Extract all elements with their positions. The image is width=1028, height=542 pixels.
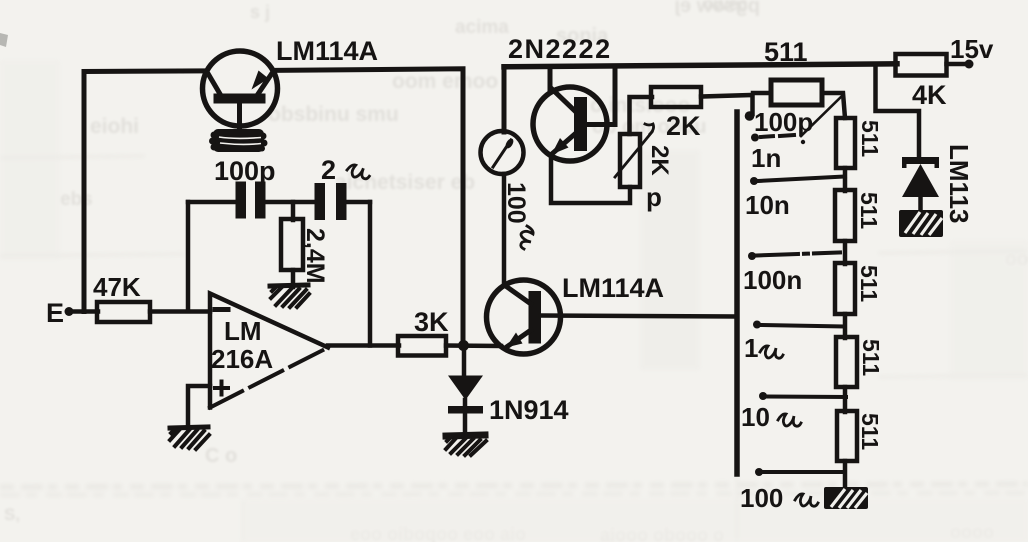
svg-text:2K: 2K	[646, 145, 673, 176]
wire R5 to ground	[843, 461, 848, 490]
switch contact 100u	[740, 468, 843, 513]
svg-text:2K: 2K	[666, 111, 701, 141]
resistor R3 511	[835, 263, 855, 314]
node 15v terminal	[965, 60, 974, 69]
svg-text:eiohi: eiohi	[90, 115, 139, 138]
resistor 47K	[97, 302, 150, 322]
switch contact 10u	[741, 392, 846, 432]
svg-text:1n: 1n	[751, 143, 781, 173]
transistor Q2 LM114A middle	[487, 273, 665, 354]
transistor Q1 LM114A top-left	[203, 36, 379, 133]
value mu script of C2	[346, 164, 370, 179]
op-amp U1 LM216A	[210, 294, 328, 408]
svg-text:10: 10	[741, 402, 770, 432]
svg-text:100: 100	[740, 483, 783, 513]
ground of op-amp non-inverting input	[170, 427, 209, 449]
wire between capacitors	[263, 200, 317, 205]
resistor R2 511	[835, 190, 855, 241]
wire rail junction down to LM113	[876, 64, 920, 158]
svg-text:2,4M: 2,4M	[301, 228, 329, 284]
wire 3K to node and Q2 emitter	[446, 343, 501, 348]
svg-text:acima: acima	[455, 17, 509, 38]
svg-text:100: 100	[502, 182, 530, 224]
resistor 3K	[398, 336, 446, 356]
switch contact 10n	[745, 177, 845, 221]
resistor 4K	[896, 54, 947, 76]
wire capacitor-branch left vertical	[186, 202, 191, 311]
svg-text:47K: 47K	[93, 272, 141, 302]
svg-text:1N914: 1N914	[489, 395, 569, 425]
wire top rail right section	[504, 64, 897, 67]
wire feedback right vertical to output node	[368, 202, 373, 346]
resistor R1 511	[836, 118, 855, 168]
wire capacitor row right	[343, 200, 370, 205]
svg-text:ebs: ebs	[60, 189, 93, 210]
svg-text:owec: owec	[703, 0, 748, 14]
svg-text:aicnetsiser eb: aicnetsiser eb	[335, 171, 475, 194]
ground of 1N914	[446, 435, 486, 455]
wire top rail to meter	[502, 67, 507, 133]
svg-text:1: 1	[744, 333, 758, 363]
node bus top	[745, 111, 755, 121]
resistor 2K	[651, 87, 701, 107]
svg-text:C o: C o	[205, 445, 237, 467]
node junction output	[458, 340, 469, 351]
svg-text:511: 511	[856, 192, 882, 229]
svg-text:LM114A: LM114A	[276, 36, 378, 66]
switch wiper arm	[801, 95, 843, 144]
wire top rail to Q3 collector	[548, 67, 553, 89]
ground of ladder	[824, 487, 868, 509]
svg-text:511: 511	[857, 120, 883, 157]
meter 100u	[481, 131, 534, 249]
ground of LM113	[899, 210, 943, 237]
edge mark left	[0, 33, 8, 47]
wire E to 47K	[69, 309, 98, 314]
wire Q3 base up to top rail	[587, 66, 615, 125]
svg-text:obsbinu smu: obsbinu smu	[268, 103, 399, 126]
svg-text:511: 511	[764, 37, 808, 67]
svg-text:S,: S,	[4, 505, 20, 524]
wire R1-R2	[843, 168, 848, 191]
svg-text:100p: 100p	[214, 156, 276, 186]
range feed resistor (top horizontal)	[753, 80, 845, 118]
svg-text:oom emoo: oom emoo	[392, 70, 498, 93]
svg-text:2: 2	[321, 155, 336, 185]
resistor R4 511	[836, 337, 857, 387]
svg-text:10n: 10n	[745, 190, 790, 220]
wire 2K right to bus top node	[701, 95, 753, 114]
transistor Q3 2N2222	[508, 34, 612, 161]
wire R2-R3	[843, 241, 848, 264]
wire 2K left lead down to trimmer top	[630, 97, 653, 134]
svg-text:100n: 100n	[743, 265, 802, 295]
svg-text:100p: 100p	[754, 107, 813, 137]
switch contact 100n	[743, 252, 840, 295]
wire top rail right of Q1 down to output node	[276, 69, 464, 343]
capacitor C2 2u	[315, 183, 326, 220]
diode D1 1N914	[448, 376, 569, 435]
svg-text:511: 511	[856, 265, 882, 302]
svg-text:15v: 15v	[950, 34, 994, 64]
svg-text:LM: LM	[224, 316, 262, 346]
wire Q2 base to range bus	[541, 316, 737, 317]
capacitor C1 100p	[236, 182, 247, 219]
node E input terminal	[65, 307, 74, 316]
wire feedback loop top-left: from input node up, across top, down to output node	[84, 71, 205, 312]
ground of 2.4M	[270, 285, 309, 307]
svg-text:p: p	[646, 182, 662, 212]
wire node to diode	[462, 345, 467, 377]
trimmer 2Kp	[615, 124, 673, 212]
diode LM113	[902, 144, 974, 224]
svg-text:E: E	[46, 298, 64, 328]
switch contact 1u	[744, 321, 843, 364]
ground scribble below Q1 base	[209, 129, 268, 152]
range bus vertical	[734, 112, 740, 474]
resistor 2.4M	[281, 219, 303, 270]
svg-text:3K: 3K	[414, 307, 449, 337]
wire Q3 emitter to trimmer bottom	[551, 155, 630, 203]
svg-text:511: 511	[858, 339, 884, 376]
svg-text:LM114A: LM114A	[562, 273, 664, 303]
switch contact 1n	[751, 134, 794, 174]
wire op-amp output to 3K	[328, 343, 399, 348]
wire 4K to 15v terminal	[947, 62, 967, 67]
wire R4-R5	[843, 387, 848, 412]
wire 47K to op-amp inverting input	[150, 309, 210, 314]
wire non-inverting input to ground	[188, 386, 210, 428]
wire 2.4M to ground	[291, 270, 296, 287]
wire meter to Q2 collector	[502, 174, 507, 286]
svg-text:s j: s j	[250, 2, 270, 22]
svg-text:511: 511	[857, 413, 883, 450]
resistor R5 511	[837, 411, 857, 461]
svg-text:LM113: LM113	[944, 144, 974, 224]
svg-text:2N2222: 2N2222	[508, 34, 612, 64]
svg-text:4K: 4K	[912, 80, 947, 110]
wire R3-R4	[843, 314, 848, 338]
wire capacitor row left	[188, 200, 238, 205]
wire stub to 2.4M	[291, 202, 296, 220]
svg-text:216A: 216A	[211, 344, 273, 374]
